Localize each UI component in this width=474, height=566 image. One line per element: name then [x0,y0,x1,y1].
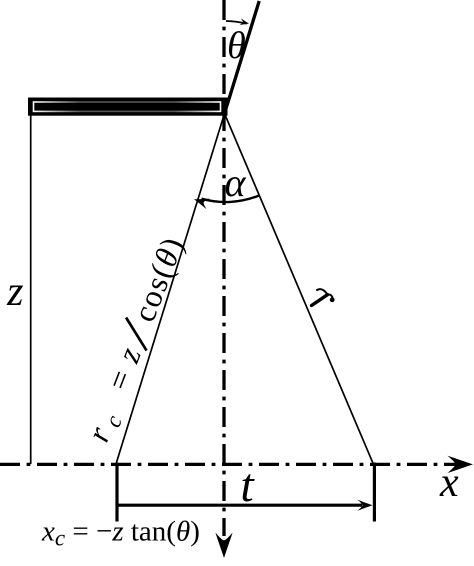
x axis arrowhead [448,456,474,473]
svg-text:x: x [439,460,459,506]
x axis (dash-dot horizontal) [0,463,458,466]
t dimension line with right arrow [117,504,362,507]
svg-text:t: t [240,459,255,512]
centerline (z axis, dash-dot vertical) [222,0,225,536]
transducer bar [28,98,228,116]
svg-text:z: z [6,269,23,315]
r_c = z/cos(theta) label (rotated along r_c line) [79,231,194,448]
theta arc with arrow [226,21,247,24]
right tick [373,463,376,522]
svg-text:α: α [225,160,247,205]
svg-text:xc = −z tan(θ): xc = −z tan(θ) [41,516,200,551]
left tick [115,463,118,522]
z dimension line (left vertical) [30,114,32,464]
alpha arc with arrow [202,196,259,202]
centerline bottom arrowhead [215,533,232,559]
theta line (thick, steered axis up-right) [225,1,260,114]
svg-text:θ: θ [227,25,246,67]
r label (rotated along r line) [312,289,335,305]
r_c line (apex to x axis, left) [116,114,225,465]
r line (apex to x axis, right) [225,114,374,465]
